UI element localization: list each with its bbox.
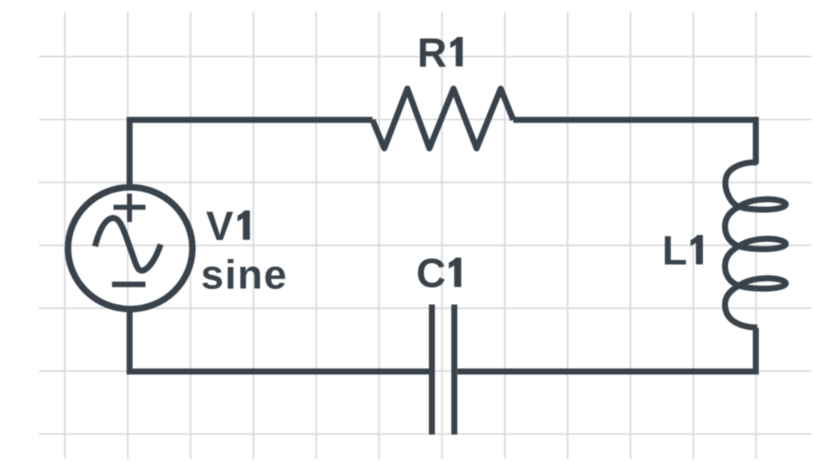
inductor L1 <box>725 162 786 327</box>
resistor R1 <box>373 89 514 149</box>
minus terminal mark <box>112 282 146 288</box>
sine waveform <box>95 218 161 271</box>
capacitor C1 <box>432 305 454 435</box>
voltage source V1 <box>68 187 192 309</box>
svg-text:C: C <box>416 250 446 296</box>
wire <box>457 328 756 372</box>
wire <box>130 310 429 372</box>
svg-text:V: V <box>206 203 234 249</box>
wire <box>130 120 373 187</box>
plus terminal mark <box>114 194 146 222</box>
wire <box>513 120 756 164</box>
svg-text:sine: sine <box>201 252 288 298</box>
svg-text:R: R <box>417 29 447 75</box>
svg-text:L: L <box>662 227 687 273</box>
